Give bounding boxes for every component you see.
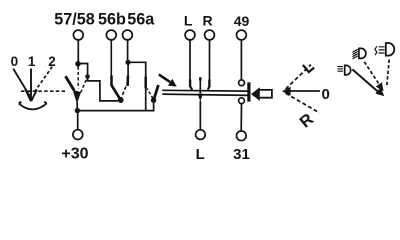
- bus junction dot (+30): [75, 108, 80, 113]
- R fixed contact nib: [208, 80, 210, 88]
- svg-text:L: L: [196, 146, 205, 163]
- switch position line 1 (pointer arrow): [25, 69, 37, 102]
- lamp C rays: [379, 47, 385, 53]
- arc end ticks: [19, 102, 47, 104]
- lamp C body: [386, 43, 394, 56]
- L fixed contact tip: [190, 87, 192, 90]
- terminal +30 label: [61, 146, 88, 163]
- lamp B selector line (dashed): [364, 62, 380, 86]
- terminal 49 label: [234, 13, 250, 29]
- svg-text:1: 1: [28, 54, 36, 69]
- dashed alternate blade K2: [121, 87, 126, 99]
- svg-text:0: 0: [11, 54, 19, 69]
- terminal 56a label: [127, 11, 155, 29]
- junction dot A: [75, 61, 81, 67]
- terminal 56b circle: [106, 30, 116, 40]
- svg-text:56a: 56a: [127, 11, 155, 29]
- terminal 56a circle: [123, 30, 133, 40]
- junction dot B: [125, 60, 130, 65]
- wire to bottom L: [199, 101, 201, 130]
- push arrow tail: [260, 90, 272, 98]
- terminal L label (top): [184, 13, 193, 29]
- terminal R label (top): [202, 13, 212, 29]
- finger top nib: [199, 77, 202, 80]
- terminal 31 circle: [237, 131, 247, 141]
- wire 56b down: [110, 40, 112, 76]
- lamp B body: [359, 48, 366, 58]
- svg-text:56b: 56b: [98, 11, 126, 29]
- lamp C selector line (dashed): [387, 60, 390, 88]
- fixed contact blob K1: [85, 74, 90, 79]
- lamp A rays: [338, 67, 344, 72]
- svg-text:L: L: [184, 13, 193, 29]
- svg-text:+30: +30: [61, 146, 88, 163]
- lever position line L (dashed): [286, 65, 311, 89]
- lever motion arrow head: [168, 79, 177, 87]
- terminal +30 circle: [73, 130, 83, 140]
- link blade to bus dot: [76, 102, 78, 108]
- dashed actuation line: [21, 90, 67, 92]
- svg-text:0: 0: [322, 86, 330, 103]
- lever position fan arrowhead: [282, 87, 291, 96]
- wire 56a stub: [127, 65, 129, 76]
- svg-text:57/58: 57/58: [54, 11, 95, 29]
- step wire K1 to K2: [88, 78, 118, 101]
- dashed alternate blade K1 (diagonal): [80, 80, 86, 94]
- contact nib on K3 wire: [144, 77, 147, 89]
- lever position line 0: [288, 90, 320, 92]
- terminal 57/58 label: [54, 11, 95, 29]
- bus riser dot (K3 pivot): [151, 98, 156, 103]
- switch position line 2 (dashed): [33, 67, 52, 94]
- terminal L (bottom) label: [196, 146, 205, 163]
- rotation arc: [19, 103, 47, 109]
- svg-text:49: 49: [234, 13, 250, 29]
- terminal 31 label: [233, 146, 250, 163]
- terminal 56b label: [98, 11, 126, 29]
- lever rod lower line: [162, 94, 248, 95]
- finger arrowhead: [198, 94, 203, 102]
- wire R down: [209, 40, 211, 80]
- flasher contact upper circle: [239, 80, 245, 86]
- lever position label R (rotated): [297, 110, 318, 132]
- terminal L circle: [185, 30, 195, 40]
- lamp A selector line (solid): [352, 69, 378, 92]
- svg-text:31: 31: [233, 146, 250, 163]
- wire to 31: [240, 104, 242, 131]
- blade arrowhead K1: [73, 90, 81, 104]
- contact nib 56b: [110, 76, 113, 87]
- lamp C squiggle: [375, 46, 377, 55]
- wire 56a to K3 branch: [128, 62, 146, 110]
- terminal L (bottom) circle: [196, 130, 206, 140]
- lever position line R (dashed): [286, 93, 320, 113]
- lever motion arrow shaft: [159, 74, 170, 82]
- wire L down: [189, 40, 191, 80]
- flasher contact lower circle: [239, 98, 245, 104]
- wire 57/58 down: [77, 40, 79, 62]
- push arrow head: [251, 87, 260, 101]
- dashed alternate blade K1 (vertical): [77, 67, 79, 89]
- wire 49 down: [240, 40, 242, 80]
- lamp B rays (hatched): [353, 49, 358, 59]
- L fixed contact nib: [189, 80, 191, 88]
- lamp B selector arrowhead: [376, 82, 384, 91]
- bus wire: [77, 100, 153, 110]
- wire to fixed contact of K1: [78, 64, 88, 75]
- pivot blob K2: [118, 97, 124, 103]
- lamp A body: [345, 65, 351, 75]
- R fixed contact tip: [208, 87, 209, 90]
- contact nib 56a: [126, 76, 129, 87]
- moving blade K3: [154, 85, 159, 100]
- terminal 49 circle: [237, 30, 247, 40]
- lever position label L (rotated strokes): [303, 65, 314, 72]
- moving blade K2: [112, 86, 121, 100]
- lever position label 0: [322, 86, 330, 103]
- switch position line 0: [13, 69, 30, 97]
- dashed alternate blade K3: [147, 89, 153, 99]
- wire 56a down: [127, 40, 129, 60]
- svg-text:R: R: [297, 110, 318, 132]
- wire to +30: [77, 112, 79, 130]
- node labels 0 1 2 (switch positions): [11, 54, 56, 69]
- flasher bridge bar: [247, 82, 250, 101]
- terminal R circle: [205, 30, 215, 40]
- moving finger on lever rod: [199, 78, 201, 94]
- lever rod upper line: [162, 89, 248, 92]
- lamp A selector arrowhead: [375, 88, 384, 97]
- moving blade K1: [66, 76, 75, 90]
- terminal 57/58 circle: [73, 30, 83, 40]
- svg-text:R: R: [202, 13, 212, 29]
